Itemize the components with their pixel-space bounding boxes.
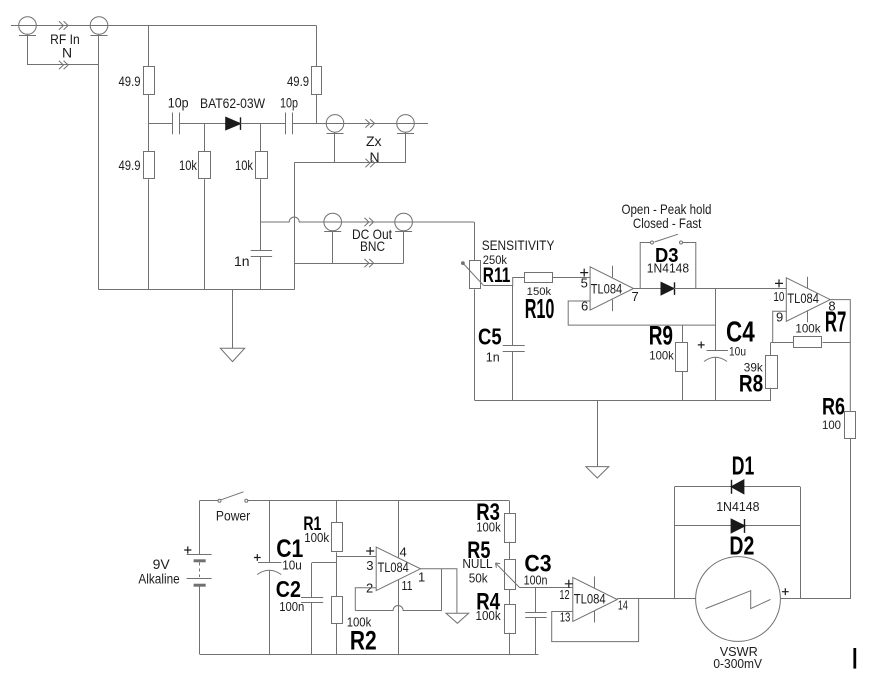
svg-text:R7: R7 (825, 307, 847, 339)
wire rail to R3 (509, 501, 511, 513)
capacitor C2 100n (301, 597, 323, 599)
wire R10 to op-amp U1 pin5 (553, 277, 590, 279)
wire row to 10k first (204, 123, 206, 151)
wire Zx lower link (294, 162, 405, 164)
svg-text:10p: 10p (168, 95, 189, 111)
wire DC pin2 down (403, 231, 405, 263)
svg-text:100n: 100n (524, 574, 548, 588)
wire R8 to bus (770, 388, 772, 401)
wire C2 top link (312, 562, 337, 564)
wire U4 output to meter (617, 598, 695, 600)
svg-text:R9: R9 (649, 321, 673, 351)
svg-text:SENSITIVITY: SENSITIVITY (482, 238, 555, 253)
wire RF In pin2 down to ground bus (98, 34, 100, 289)
wire diode box left (674, 487, 676, 599)
wire battery to switch (200, 500, 219, 502)
resistor R2 100k (332, 597, 343, 624)
wire RF In top rail (11, 25, 317, 27)
svg-text:Power: Power (216, 507, 251, 523)
svg-text:5: 5 (581, 276, 588, 291)
chevron Zx top (365, 119, 374, 127)
wire switch right leg (683, 243, 696, 289)
wire C2 to bottom rail (311, 603, 313, 654)
wire node column x294 (294, 163, 296, 290)
wire 1n to bus (260, 257, 262, 290)
wire U1 pin6 feedback (568, 301, 715, 325)
svg-text:10u: 10u (729, 345, 746, 359)
wire DC out to R11 (474, 222, 476, 261)
diode D3 1N4148 (661, 282, 674, 295)
chevron RF In lower (59, 61, 68, 69)
svg-text:1n: 1n (234, 253, 250, 269)
cursor artifact (853, 648, 856, 669)
potentiometer R11 250k body (470, 261, 481, 289)
op-amp U1 TL084 (590, 267, 633, 310)
resistor R1 100k (332, 523, 343, 552)
svg-text:TL084: TL084 (574, 592, 606, 607)
svg-text:7: 7 (632, 289, 639, 304)
svg-text:100k: 100k (649, 349, 674, 363)
wire R5 to R4 (509, 589, 511, 604)
svg-text:3: 3 (366, 558, 373, 573)
wire rail to R1 (336, 501, 338, 523)
svg-text:Alkaline: Alkaline (138, 571, 179, 587)
ground bus top block (99, 289, 294, 291)
svg-text:R2: R2 (350, 626, 377, 656)
wire wiper to U4 pin12 (520, 587, 573, 589)
wire switch left leg (640, 243, 650, 289)
bus middle block (475, 400, 771, 402)
label + (C4) (698, 342, 705, 349)
potentiometer R11 wiper (462, 262, 465, 265)
connector RF In pin2 (90, 17, 108, 35)
wire Zx pin1 down (334, 132, 336, 163)
label + (battery) (184, 546, 191, 553)
wire detector row left (149, 123, 173, 125)
wire Zx pin2 down (405, 132, 407, 163)
svg-text:TL084: TL084 (378, 560, 410, 575)
chevron RF In top (59, 21, 68, 29)
wire DC Out row with hop (261, 217, 474, 222)
wire C4 to bus (715, 357, 717, 400)
chevron DC lower (364, 259, 373, 267)
label + (U2) (775, 279, 783, 287)
svg-text:100: 100 (822, 418, 841, 432)
wire R3 to R5 (509, 542, 511, 560)
resistor 10k first (199, 152, 211, 179)
wire RF In shield drop (27, 34, 29, 65)
resistor 49.9 right (312, 67, 322, 95)
wire link to C2 (311, 563, 313, 598)
wire cap1 to diode (180, 123, 226, 125)
wire U2 output (830, 300, 850, 412)
wire DC lower link (294, 263, 403, 265)
op-amp U4 TL084 (573, 577, 617, 621)
wire rail to 49.9 upper-left (148, 26, 150, 68)
resistor R9 100k (676, 343, 688, 372)
connector DC Out pin2 (395, 213, 413, 231)
switch Power (218, 499, 221, 502)
svg-text:TL084: TL084 (787, 291, 819, 306)
svg-text:1: 1 (418, 570, 425, 585)
wire R4 to bottom rail (509, 633, 511, 654)
resistor R3 100k (505, 514, 516, 543)
capacitor C5 1n (503, 345, 525, 347)
connector RF In pin1 (19, 17, 37, 35)
svg-text:NULL: NULL (462, 557, 492, 571)
svg-text:R8: R8 (739, 371, 763, 398)
svg-text:Zx: Zx (366, 133, 382, 149)
diode BAT62-03W (226, 117, 241, 130)
resistor 49.9 lower-left (144, 152, 155, 179)
capacitor C4 10u (707, 350, 728, 352)
svg-text:C5: C5 (478, 323, 502, 349)
wire DC node to 1n (260, 222, 262, 251)
capacitor 1n shunt (251, 250, 272, 252)
battery negative lead (199, 585, 201, 654)
svg-text:1N4148: 1N4148 (716, 500, 759, 514)
svg-text:R6: R6 (822, 394, 845, 421)
svg-text:100n: 100n (279, 600, 304, 614)
svg-text:D2: D2 (729, 530, 754, 560)
wire R11 wiper out (483, 278, 525, 286)
label + (U1) (580, 269, 588, 277)
wire U3 pin2 (355, 588, 376, 611)
ground stem top block (232, 290, 234, 348)
svg-text:0-300mV: 0-300mV (713, 656, 762, 671)
wire D3 to junction (674, 288, 786, 290)
wire row to 10k second (260, 123, 262, 151)
wire node to C3 (535, 588, 537, 613)
capacitor C3 100n (525, 612, 546, 614)
wire diode to cap2 (241, 123, 286, 125)
connector Zx pin1 (326, 115, 344, 133)
capacitor 10p first (172, 113, 174, 135)
connector Zx pin2 (397, 115, 415, 133)
ground symbol top block (220, 348, 244, 361)
wire RF In shield lower (28, 64, 100, 66)
wire D2 branch (675, 525, 801, 527)
svg-text:1n: 1n (486, 350, 500, 364)
wire C3 to bottom rail (535, 618, 537, 654)
wire R6 to meter line (850, 439, 852, 599)
wire C5 to bus (512, 352, 514, 401)
wire top rail bottom block (248, 500, 510, 502)
svg-text:4: 4 (400, 544, 407, 559)
wire 49.9 lower-left column to bus (148, 179, 150, 290)
wire rail to U3 pin4 (398, 501, 400, 558)
svg-text:10k: 10k (235, 157, 254, 173)
wire 49.9 right to row (316, 95, 318, 124)
wire rail down to R 49.9 right (316, 26, 318, 68)
meter M1 VSWR body (696, 557, 781, 642)
svg-text:49.9: 49.9 (287, 73, 309, 89)
wire U3 feedback with hop (355, 606, 442, 611)
svg-text:49.9: 49.9 (119, 157, 141, 173)
wire C1 to bottom rail (269, 571, 271, 654)
wire R9 to bus (682, 371, 684, 400)
diode D2 1N4148 (731, 519, 745, 533)
svg-text:N: N (62, 45, 72, 61)
svg-text:C2: C2 (276, 576, 301, 602)
connector DC Out pin1 (324, 213, 342, 231)
label + (meter) (782, 588, 789, 595)
svg-text:49.9: 49.9 (119, 73, 141, 89)
wire node to R8 (770, 342, 772, 355)
ground symbol U3 (446, 613, 469, 623)
wire node to U3 pin3 (337, 556, 376, 558)
op-amp U2 TL084 (786, 278, 830, 322)
wire 10k first to bus (204, 179, 206, 290)
battery 9V positive lead (199, 501, 201, 554)
battery cell plates (187, 554, 212, 556)
wire R11 bottom to bus (474, 289, 476, 400)
svg-text:100k: 100k (476, 609, 502, 623)
svg-text:10: 10 (773, 289, 784, 304)
svg-text:9: 9 (776, 310, 783, 325)
wire cap2 to Zx (292, 123, 428, 125)
wire U2 pin9 (773, 311, 787, 342)
label + (C1) (254, 554, 261, 561)
wire DC pin1 down (332, 231, 334, 263)
resistor R7 100k (794, 337, 822, 348)
wire U4 pin13 feedback (552, 599, 639, 642)
svg-text:100k: 100k (304, 531, 330, 545)
wire 49.9 upper-left to node row (148, 95, 150, 152)
svg-text:10u: 10u (282, 559, 302, 573)
wire R8 node to R7 (771, 342, 794, 344)
chevron Zx lower (365, 159, 374, 167)
potentiometer R5 wiper (496, 563, 520, 588)
diode D1 1N4148 (731, 480, 744, 494)
svg-text:D1: D1 (732, 451, 755, 481)
wire feedback up to output (441, 569, 443, 611)
switch S1 peak hold (651, 241, 654, 244)
svg-text:Closed - Fast: Closed - Fast (633, 215, 701, 231)
wire D1 branch (675, 486, 801, 488)
svg-text:1N4148: 1N4148 (647, 262, 689, 276)
potentiometer R5 50k body (505, 560, 516, 590)
resistor R4 100k (505, 605, 516, 634)
meter M1 sawtooth (706, 591, 771, 609)
wire node to C5 (512, 286, 514, 346)
wire U3 pin11 to bottom rail (398, 580, 400, 654)
wire U1 out to D3 (634, 288, 662, 290)
svg-text:100k: 100k (795, 321, 821, 335)
label + (U4) (565, 580, 573, 588)
wire rail to C1 (269, 501, 271, 563)
capacitor 10p second (285, 113, 287, 135)
resistor R10 150k (525, 273, 553, 283)
svg-text:100k: 100k (476, 521, 501, 535)
svg-text:14: 14 (618, 598, 628, 613)
wire R7 to output (822, 342, 850, 344)
svg-text:BNC: BNC (360, 238, 385, 254)
label + (U3) (366, 547, 374, 555)
svg-text:11: 11 (402, 578, 413, 593)
resistor R8 39k (766, 356, 778, 389)
wire R2 to bottom rail (336, 624, 338, 654)
wire R1 to R2 (336, 552, 338, 596)
wire 10k second to DC node (260, 179, 262, 222)
svg-text:12: 12 (559, 587, 569, 602)
op-amp U3 TL084 (376, 547, 420, 591)
ground stem middle (597, 400, 599, 466)
bottom rail (200, 654, 539, 656)
wire junction to C4 (715, 289, 717, 351)
svg-text:50k: 50k (469, 572, 489, 586)
chevron DC top (364, 218, 373, 226)
wire U3 output (421, 569, 457, 613)
svg-text:10k: 10k (179, 157, 198, 173)
svg-text:10p: 10p (280, 95, 298, 111)
svg-text:TL084: TL084 (591, 282, 623, 297)
capacitor C1 10u (258, 562, 281, 564)
wire diode box right (800, 487, 802, 599)
resistor R6 100 (845, 412, 856, 439)
wire feedback to R9 (682, 325, 684, 342)
resistor 49.9 upper-left (144, 67, 155, 95)
ground symbol middle (586, 467, 609, 478)
svg-text:R11: R11 (483, 264, 511, 287)
svg-text:R10: R10 (525, 293, 555, 324)
wire meter to R6 column (780, 598, 850, 600)
svg-text:BAT62-03W: BAT62-03W (200, 95, 266, 111)
resistor 10k second (256, 152, 268, 179)
